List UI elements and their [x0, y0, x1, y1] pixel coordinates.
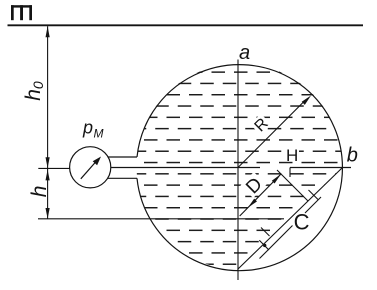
svg-text:H: H — [286, 146, 298, 165]
tube upper line — [108, 156, 137, 158]
label D — [240, 172, 266, 198]
tube lower line — [108, 177, 137, 179]
cover chord line b to bottom — [238, 168, 343, 270]
svg-text:p: p — [82, 118, 93, 138]
cover outer edge upper — [305, 197, 321, 213]
cover end tick T1 — [309, 190, 319, 200]
arrow down to gauge axis — [46, 157, 50, 168]
label H — [285, 147, 299, 161]
svg-text:M: M — [94, 127, 104, 141]
bottom reference line — [38, 218, 284, 220]
arrow up to surface — [46, 26, 50, 37]
radius R arrow — [238, 101, 305, 168]
dimension D line — [240, 174, 281, 216]
svg-text:a: a — [239, 42, 250, 64]
vertical axis line — [237, 60, 239, 281]
extension line E2 — [261, 228, 270, 237]
dimension line h0 h vertical — [47, 26, 49, 219]
junction dot — [263, 244, 266, 247]
arrow up to gauge axis — [46, 170, 50, 181]
axis extension to b — [290, 167, 351, 169]
surface line — [8, 24, 364, 26]
cover outer edge lower — [260, 226, 293, 259]
tank circle with opening at tube — [137, 65, 342, 271]
surface symbol P — [11, 5, 32, 20]
svg-text:b: b — [347, 145, 358, 167]
pressure gauge body — [70, 147, 111, 188]
liquid hatching inside tank — [134, 60, 346, 274]
horizontal axis line — [111, 167, 260, 169]
H tick — [289, 168, 291, 178]
cover end tick T2 — [259, 240, 269, 250]
gauge needle — [81, 161, 97, 179]
svg-text:C: C — [294, 210, 310, 235]
label R — [250, 114, 271, 135]
label a — [237, 45, 251, 58]
extension line E1 — [277, 170, 308, 201]
svg-text:h: h — [28, 186, 51, 198]
connector line at gauge level — [38, 167, 70, 169]
arrow down to bottom line — [46, 208, 50, 219]
